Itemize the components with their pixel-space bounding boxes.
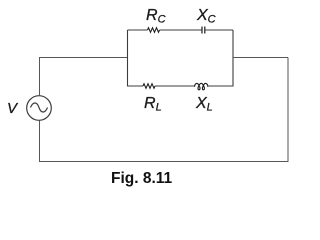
- wire right vertical: [287, 58, 289, 162]
- wire left vertical top: [39, 58, 41, 96]
- resistor RC: [148, 28, 160, 33]
- svg-text:RC: RC: [146, 7, 166, 26]
- wire left vertical bottom: [39, 121, 41, 163]
- source V1: [27, 96, 52, 121]
- wire input horizontal: [39, 57, 128, 59]
- svg-text:V: V: [7, 100, 19, 117]
- capacitor XC: [202, 27, 205, 34]
- svg-text:XC: XC: [196, 7, 216, 26]
- svg-text:RL: RL: [144, 95, 162, 114]
- wire top branch left: [128, 29, 148, 31]
- resistor RL: [143, 84, 155, 89]
- inductor XL: [195, 83, 208, 89]
- wire top branch middle: [160, 29, 202, 31]
- svg-text:XL: XL: [195, 95, 213, 114]
- wire top branch right: [205, 29, 233, 31]
- wire bottom branch right: [208, 85, 233, 87]
- wire box right edge: [232, 30, 234, 87]
- wire bottom branch left: [128, 85, 144, 87]
- wire output horizontal: [233, 57, 288, 59]
- wire bottom branch middle: [155, 85, 195, 87]
- svg-text:Fig. 8.11: Fig. 8.11: [111, 170, 173, 187]
- wire bottom horizontal: [39, 161, 289, 163]
- wire box left edge: [127, 30, 129, 87]
